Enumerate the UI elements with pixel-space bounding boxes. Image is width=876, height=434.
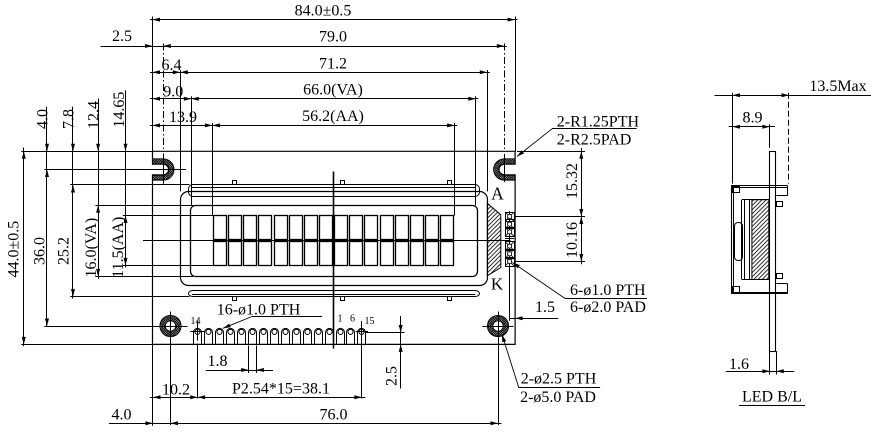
svg-text:15.32: 15.32	[564, 163, 581, 199]
svg-text:1: 1	[338, 314, 343, 325]
svg-text:K: K	[491, 275, 504, 294]
svg-text:13.5Max: 13.5Max	[809, 78, 866, 95]
svg-text:56.2(AA): 56.2(AA)	[302, 108, 364, 125]
svg-text:16.0(VA): 16.0(VA)	[83, 218, 100, 278]
svg-text:4.0: 4.0	[35, 109, 52, 129]
svg-text:13.9: 13.9	[169, 109, 197, 126]
svg-text:2-R1.25PTH: 2-R1.25PTH	[557, 113, 640, 130]
svg-text:14.65: 14.65	[111, 92, 128, 128]
svg-text:6: 6	[350, 314, 355, 325]
svg-text:36.0: 36.0	[31, 237, 48, 265]
svg-text:8.9: 8.9	[743, 110, 763, 127]
svg-text:10.2: 10.2	[162, 381, 190, 398]
svg-text:79.0: 79.0	[319, 28, 347, 45]
svg-text:14: 14	[191, 316, 201, 327]
svg-text:6.4: 6.4	[162, 57, 182, 74]
svg-text:10.16: 10.16	[564, 222, 581, 258]
svg-text:15: 15	[365, 316, 375, 327]
svg-text:2.5: 2.5	[112, 28, 132, 45]
svg-text:2-ø5.0 PAD: 2-ø5.0 PAD	[520, 389, 596, 406]
svg-text:2-ø2.5 PTH: 2-ø2.5 PTH	[521, 371, 597, 388]
svg-text:16-ø1.0 PTH: 16-ø1.0 PTH	[217, 302, 301, 319]
svg-text:LED B/L: LED B/L	[742, 389, 802, 406]
svg-text:12.4: 12.4	[85, 101, 102, 129]
svg-text:6-ø1.0 PTH: 6-ø1.0 PTH	[570, 282, 646, 299]
svg-text:1.8: 1.8	[208, 353, 228, 370]
svg-text:4.0: 4.0	[112, 407, 132, 424]
svg-text:76.0: 76.0	[320, 407, 348, 424]
svg-text:6-ø2.0 PAD: 6-ø2.0 PAD	[570, 299, 646, 316]
svg-text:7.8: 7.8	[60, 109, 77, 129]
svg-text:1.5: 1.5	[535, 299, 555, 316]
svg-text:A: A	[491, 183, 504, 203]
svg-text:66.0(VA): 66.0(VA)	[303, 82, 363, 99]
svg-text:11.5(AA): 11.5(AA)	[110, 217, 127, 278]
svg-text:2-R2.5PAD: 2-R2.5PAD	[557, 131, 632, 148]
svg-text:1.6: 1.6	[729, 356, 749, 373]
svg-text:84.0±0.5: 84.0±0.5	[295, 3, 352, 20]
svg-text:44.0±0.5: 44.0±0.5	[6, 221, 23, 278]
svg-text:P2.54*15=38.1: P2.54*15=38.1	[232, 381, 330, 398]
svg-text:25.2: 25.2	[56, 237, 73, 265]
svg-text:71.2: 71.2	[319, 55, 347, 72]
svg-text:2.5: 2.5	[384, 366, 401, 386]
